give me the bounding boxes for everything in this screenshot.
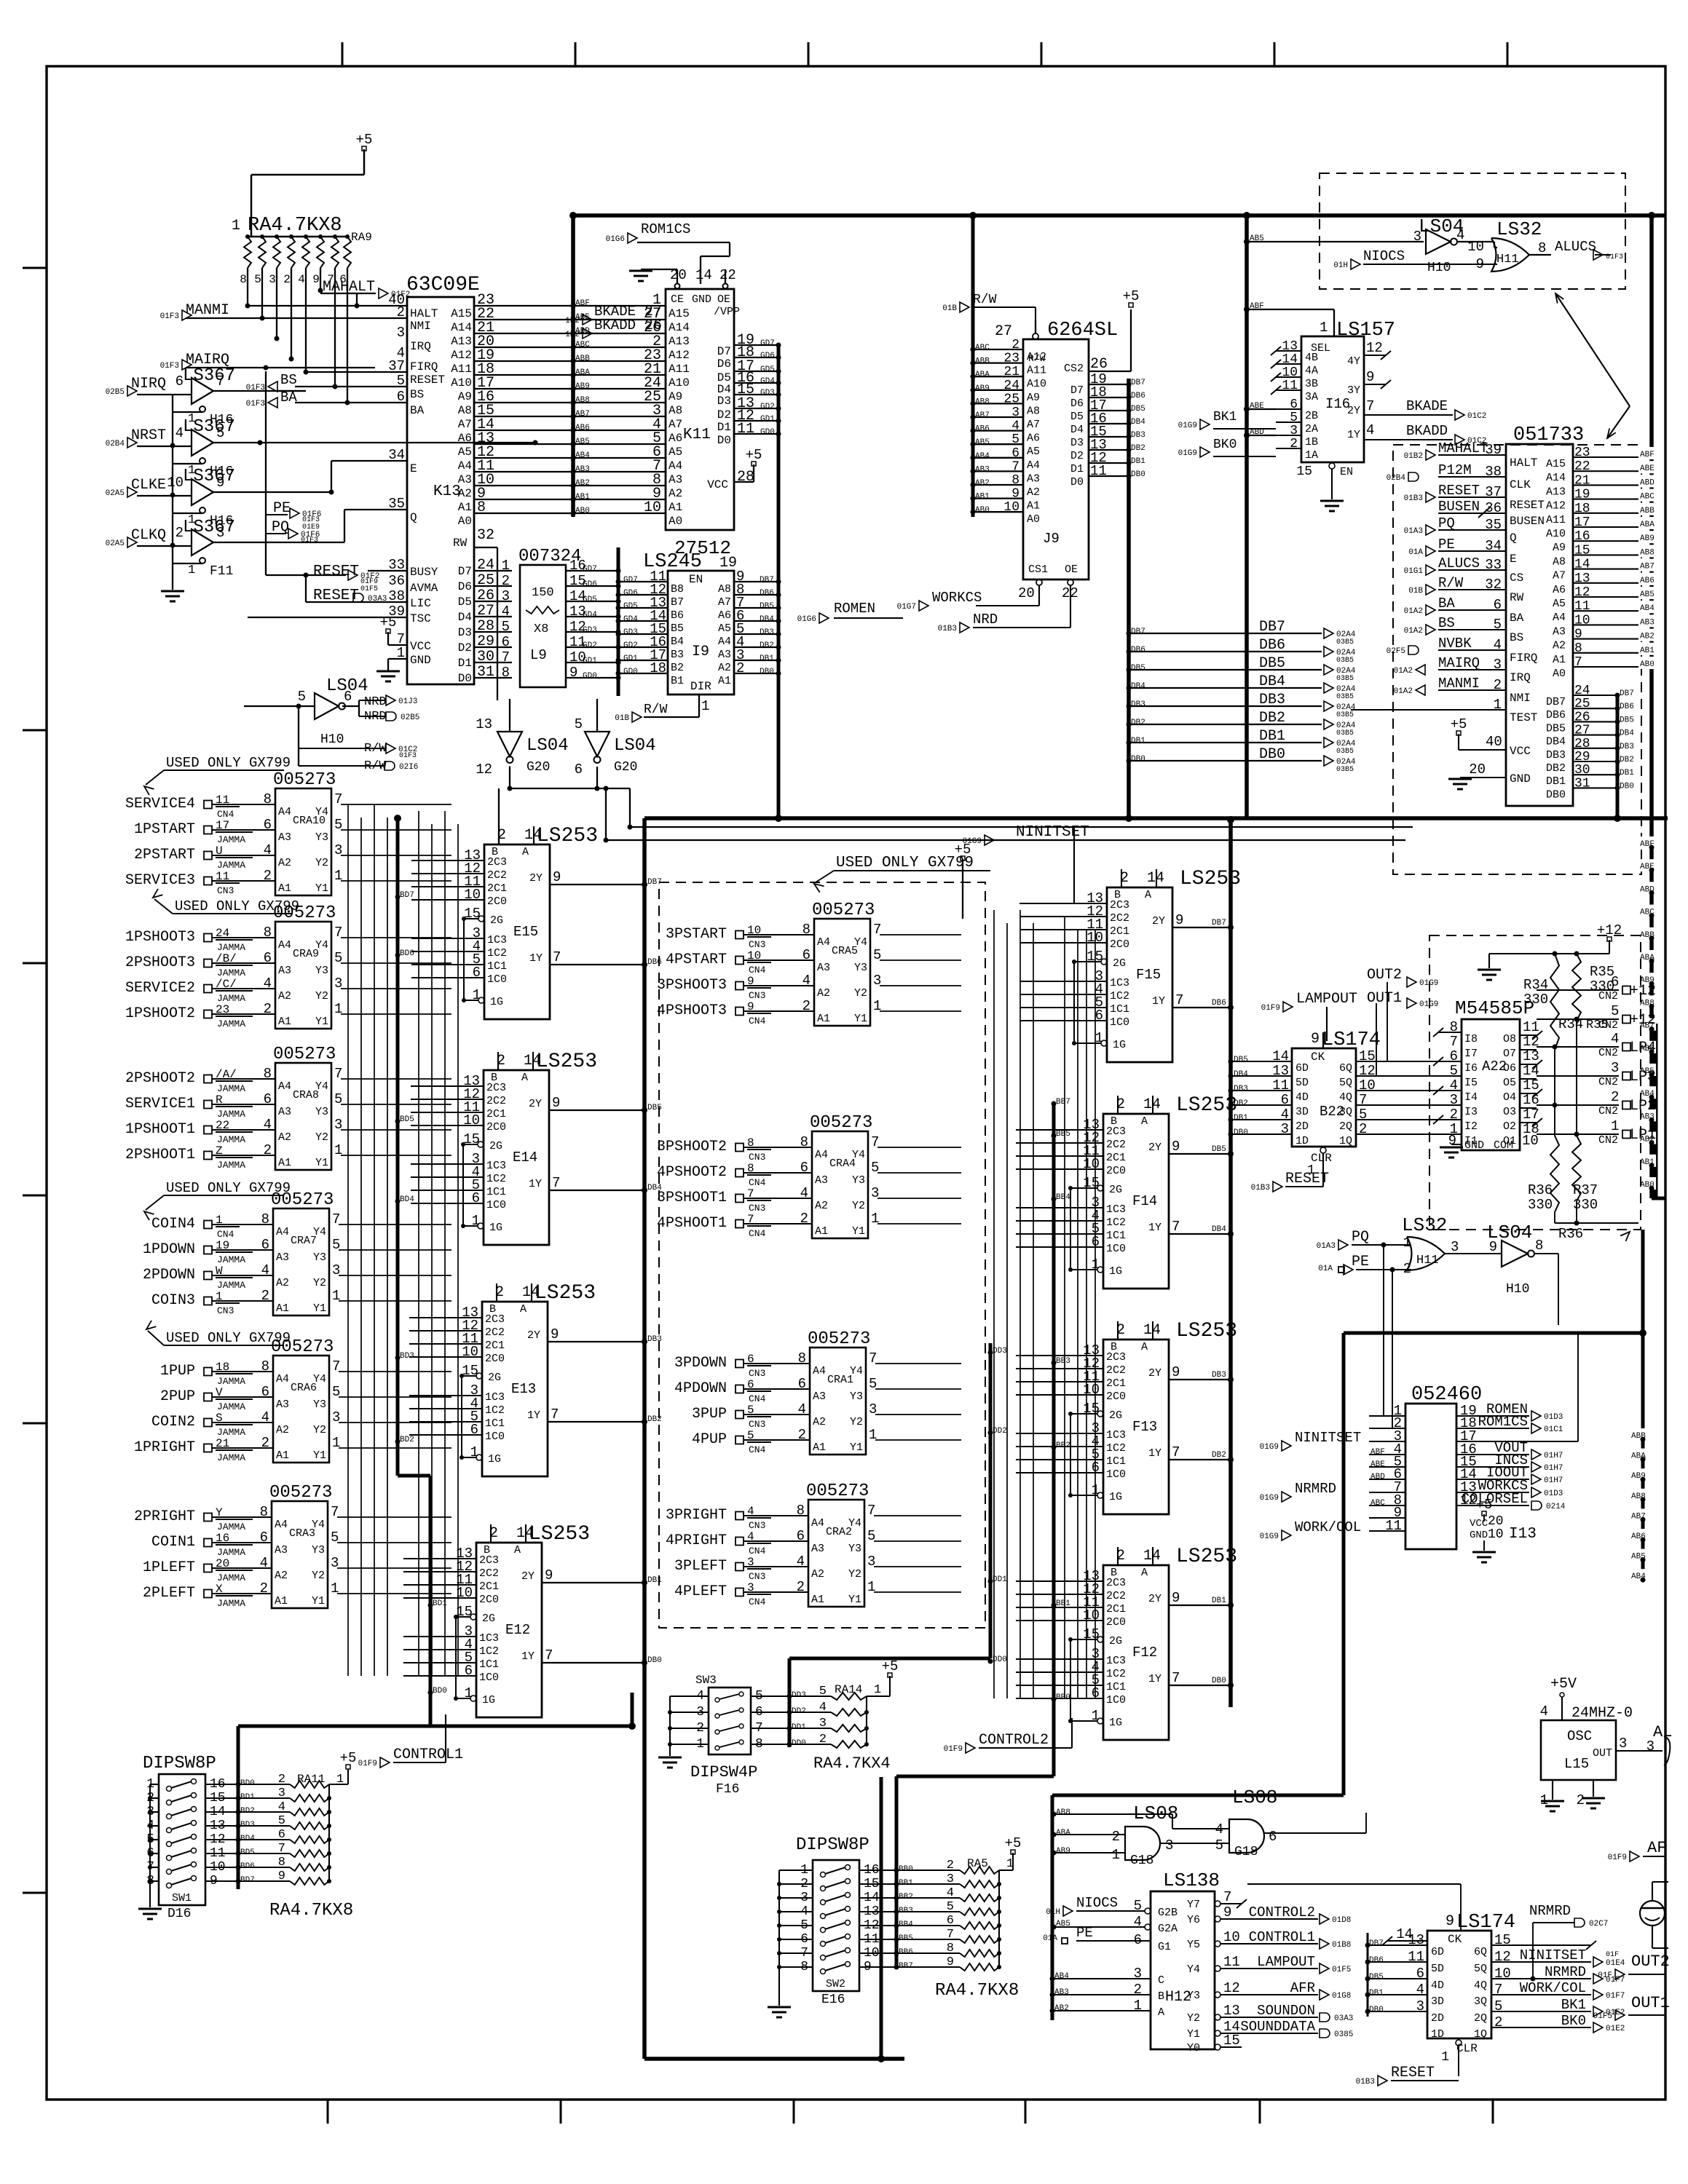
svg-text:D0: D0 <box>717 434 731 447</box>
svg-text:Y2: Y2 <box>312 1570 325 1582</box>
svg-text:9: 9 <box>553 869 561 885</box>
svg-text:ABF: ABF <box>1640 451 1655 459</box>
svg-text:A9: A9 <box>669 390 682 403</box>
svg-text:01H: 01H <box>1046 1908 1060 1917</box>
svg-text:CLR: CLR <box>1456 2042 1478 2055</box>
svg-text:A7: A7 <box>458 418 472 431</box>
svg-text:01F3: 01F3 <box>1606 253 1623 261</box>
svg-text:G18: G18 <box>1130 1853 1153 1868</box>
svg-text:AB5: AB5 <box>1056 1920 1070 1928</box>
svg-text:DB3: DB3 <box>1546 749 1566 761</box>
svg-text:9: 9 <box>551 1326 559 1342</box>
svg-text:ABE: ABE <box>1640 464 1655 473</box>
svg-text:DB4: DB4 <box>1546 736 1566 748</box>
svg-text:37: 37 <box>388 358 405 374</box>
svg-text:CN3: CN3 <box>749 939 765 950</box>
notes USED ONLY GX799 (left) <box>144 755 299 1346</box>
net LAMPOUT <box>1261 991 1357 1041</box>
svg-text:CLKE: CLKE <box>131 477 166 494</box>
svg-text:AB9: AB9 <box>975 384 990 393</box>
svg-text:JAMMA: JAMMA <box>217 1134 245 1145</box>
svg-text:Y6: Y6 <box>1187 1914 1200 1926</box>
svg-text:DB3: DB3 <box>1131 700 1145 709</box>
svg-text:D4: D4 <box>1070 424 1084 436</box>
svg-text:JAMMA: JAMMA <box>217 993 245 1004</box>
svg-text:Y3: Y3 <box>312 1544 325 1556</box>
multiplexer LS253 E13 <box>462 1282 644 1476</box>
svg-text:27: 27 <box>995 323 1012 340</box>
bus transceiver LS245 I9 <box>615 551 781 723</box>
svg-text:2C3: 2C3 <box>485 1313 505 1326</box>
svg-text:CN4: CN4 <box>749 1444 766 1455</box>
svg-text:AB7: AB7 <box>575 410 590 419</box>
svg-text:CN3: CN3 <box>217 885 234 896</box>
svg-text:DB3: DB3 <box>1234 1085 1248 1093</box>
svg-text:A8: A8 <box>458 404 472 417</box>
svg-text:BD4: BD4 <box>400 1195 414 1204</box>
nets BKADE / BKADD <box>565 304 662 339</box>
svg-text:5: 5 <box>1611 1003 1619 1019</box>
svg-text:Y3: Y3 <box>313 1251 326 1264</box>
svg-text:4Q: 4Q <box>1339 1091 1352 1104</box>
svg-text:Y1: Y1 <box>850 1441 863 1454</box>
svg-text:1C2: 1C2 <box>1106 1442 1126 1455</box>
svg-text:A2: A2 <box>815 1200 828 1212</box>
svg-text:BK0: BK0 <box>1561 2013 1586 2029</box>
svg-text:1G: 1G <box>1109 1717 1122 1729</box>
svg-text:4B: 4B <box>1305 352 1318 364</box>
svg-text:ABE: ABE <box>1370 1460 1385 1469</box>
svg-text:01F: 01F <box>1606 1951 1619 1959</box>
svg-text:JAMMA: JAMMA <box>217 834 245 845</box>
svg-text:2PSTART: 2PSTART <box>134 847 195 863</box>
svg-text:AB5: AB5 <box>1640 590 1655 599</box>
svg-text:AB8: AB8 <box>1640 548 1655 557</box>
svg-text:A13: A13 <box>1546 486 1566 498</box>
svg-text:01F9: 01F9 <box>1261 1004 1280 1013</box>
svg-text:ABB: ABB <box>1640 507 1655 515</box>
svg-text:4PSHOOT1: 4PSHOOT1 <box>657 1215 727 1232</box>
svg-text:1Q: 1Q <box>1474 2028 1487 2041</box>
svg-text:NRD: NRD <box>973 612 998 628</box>
svg-text:01E4: 01E4 <box>1606 1959 1625 1968</box>
svg-text:9: 9 <box>1175 912 1183 928</box>
svg-text:DB0: DB0 <box>1234 1128 1248 1137</box>
hex flip-flop LS174 L14 <box>1247 1884 1625 2086</box>
svg-text:ABB: ABB <box>575 355 590 363</box>
svg-text:01H7: 01H7 <box>1544 1452 1563 1460</box>
svg-text:CK: CK <box>1448 1933 1462 1946</box>
svg-text:9: 9 <box>312 273 320 286</box>
svg-text:5: 5 <box>1011 432 1019 447</box>
svg-text:1C0: 1C0 <box>486 1199 506 1211</box>
svg-text:6: 6 <box>502 634 510 650</box>
svg-text:13: 13 <box>476 716 492 732</box>
svg-text:JAMMA: JAMMA <box>217 860 245 871</box>
svg-text:2C1: 2C1 <box>1110 925 1129 938</box>
svg-text:D0: D0 <box>1070 476 1084 488</box>
svg-text:BA: BA <box>1510 612 1524 625</box>
svg-text:1G: 1G <box>1109 1265 1122 1278</box>
svg-text:OE: OE <box>717 293 730 306</box>
svg-text:Y1: Y1 <box>313 1449 326 1462</box>
svg-text:A0: A0 <box>669 515 682 528</box>
svg-text:01F5: 01F5 <box>360 585 378 593</box>
multiplexer LS253 F12 <box>1083 1546 1237 1740</box>
svg-text:B22: B22 <box>1320 1104 1344 1120</box>
svg-text:1PLEFT: 1PLEFT <box>143 1559 195 1576</box>
svg-text:01B: 01B <box>1408 587 1423 596</box>
svg-text:01A: 01A <box>1408 548 1423 557</box>
svg-text:BKADD: BKADD <box>594 317 636 333</box>
svg-text:01C2: 01C2 <box>1467 412 1486 421</box>
svg-text:NIOCS: NIOCS <box>1076 1895 1118 1911</box>
svg-text:CN4: CN4 <box>749 965 766 976</box>
nets OUT2 / OUT1 <box>1367 967 1438 1009</box>
svg-text:Q: Q <box>410 511 417 524</box>
svg-text:4: 4 <box>1540 1704 1548 1720</box>
svg-text:DB0: DB0 <box>1131 470 1145 479</box>
multiplexer LS253 F14 <box>1083 1094 1237 1289</box>
address bus AB (vertical, left) <box>571 215 591 517</box>
svg-text:A3: A3 <box>278 831 291 844</box>
svg-text:Y3: Y3 <box>848 1543 861 1555</box>
svg-text:G2A: G2A <box>1158 1923 1178 1935</box>
DD bus (DIP switch SW3 data) <box>789 1343 1007 1747</box>
svg-text:01G9: 01G9 <box>1260 1443 1279 1452</box>
svg-text:11: 11 <box>1223 1954 1240 1970</box>
svg-text:A1: A1 <box>278 1157 291 1169</box>
svg-text:2Q: 2Q <box>1339 1120 1352 1133</box>
svg-text:Y3: Y3 <box>852 1174 865 1187</box>
svg-text:JAMMA: JAMMA <box>217 1109 245 1120</box>
svg-text:9: 9 <box>1311 1031 1320 1048</box>
svg-text:CN3: CN3 <box>749 1419 765 1430</box>
svg-text:Y3: Y3 <box>854 962 867 974</box>
svg-text:AB8: AB8 <box>1056 1808 1070 1817</box>
svg-text:03B5: 03B5 <box>1336 638 1354 646</box>
svg-text:CN2: CN2 <box>1598 1047 1618 1059</box>
svg-text:A3: A3 <box>811 1543 824 1555</box>
svg-text:7: 7 <box>1172 1219 1180 1235</box>
svg-text:E: E <box>1510 553 1517 566</box>
svg-text:RESET: RESET <box>410 373 445 387</box>
svg-text:01A3: 01A3 <box>1404 527 1423 536</box>
svg-text:7: 7 <box>552 1175 560 1191</box>
svg-text:DB2: DB2 <box>760 641 774 650</box>
svg-text:D2: D2 <box>717 408 731 422</box>
svg-text:ABC: ABC <box>1370 1499 1385 1508</box>
svg-text:R36: R36 <box>1528 1182 1553 1198</box>
svg-text:36: 36 <box>388 573 405 589</box>
svg-text:3PSHOOT2: 3PSHOOT2 <box>657 1139 727 1155</box>
svg-text:D6: D6 <box>717 357 731 371</box>
svg-text:BK1: BK1 <box>1213 410 1237 424</box>
svg-text:AL: AL <box>1653 1723 1672 1741</box>
svg-text:9: 9 <box>1172 1139 1180 1155</box>
svg-text:AB6: AB6 <box>1640 577 1655 585</box>
svg-text:+5: +5 <box>1123 288 1140 304</box>
svg-text:1G: 1G <box>482 1694 495 1706</box>
svg-text:HALT: HALT <box>410 307 438 320</box>
svg-text:21: 21 <box>1003 365 1019 379</box>
svg-text:DB4: DB4 <box>1131 418 1145 427</box>
svg-text:3: 3 <box>269 273 276 286</box>
svg-text:DB6: DB6 <box>1131 646 1145 654</box>
svg-text:CN3: CN3 <box>749 1571 765 1582</box>
ROM 27512 K11 <box>629 256 781 559</box>
svg-text:01G9: 01G9 <box>1260 1494 1279 1503</box>
svg-text:BA: BA <box>1438 596 1455 612</box>
right edge AB bus (lower segment) <box>1630 1230 1647 1583</box>
svg-text:BD2: BD2 <box>400 1436 414 1444</box>
svg-text:20: 20 <box>1488 1514 1504 1529</box>
svg-text:7: 7 <box>1175 992 1183 1008</box>
svg-text:Y1: Y1 <box>315 1016 328 1028</box>
svg-text:9: 9 <box>1172 1590 1180 1606</box>
svg-text:A0: A0 <box>458 515 472 528</box>
svg-text:BB3: BB3 <box>1056 1357 1070 1366</box>
svg-text:A: A <box>1141 1115 1148 1128</box>
svg-text:A4: A4 <box>817 936 830 949</box>
svg-text:GD4: GD4 <box>623 615 638 624</box>
svg-text:4: 4 <box>298 273 305 286</box>
svg-text:5: 5 <box>216 425 224 441</box>
svg-text:Q: Q <box>1510 531 1517 545</box>
svg-text:F14: F14 <box>1132 1193 1157 1209</box>
svg-text:CLK: CLK <box>1510 478 1531 491</box>
svg-text:DB0: DB0 <box>760 668 774 676</box>
svg-text:7: 7 <box>551 1406 559 1423</box>
svg-text:15: 15 <box>1523 1077 1539 1093</box>
svg-text:NIOCS: NIOCS <box>1363 248 1405 264</box>
svg-text:4: 4 <box>1611 1031 1619 1047</box>
svg-text:DB3: DB3 <box>1212 1371 1226 1380</box>
svg-text:8: 8 <box>1535 1238 1543 1254</box>
svg-text:AB8: AB8 <box>975 397 990 406</box>
svg-text:DD1: DD1 <box>993 1575 1007 1584</box>
svg-text:RESET: RESET <box>1510 499 1545 512</box>
svg-text:MANMI: MANMI <box>1438 676 1480 692</box>
svg-text:K13: K13 <box>433 483 461 500</box>
svg-text:4PDOWN: 4PDOWN <box>674 1380 727 1397</box>
svg-text:AB6: AB6 <box>575 424 590 432</box>
svg-text:1C0: 1C0 <box>479 1671 499 1684</box>
svg-text:01B3: 01B3 <box>1404 494 1423 503</box>
svg-text:A13: A13 <box>451 335 472 348</box>
svg-text:5D: 5D <box>1431 1963 1444 1975</box>
svg-text:A4: A4 <box>278 939 291 951</box>
svg-text:RA11: RA11 <box>297 1773 325 1786</box>
svg-text:AB4: AB4 <box>975 452 990 461</box>
svg-text:A2: A2 <box>811 1568 824 1580</box>
svg-text:JAMMA: JAMMA <box>217 1522 245 1532</box>
svg-text:A1: A1 <box>817 1013 830 1025</box>
svg-text:6: 6 <box>575 761 583 778</box>
svg-text:01B2: 01B2 <box>1404 452 1423 461</box>
middle block bottom edge <box>644 2057 904 2061</box>
svg-text:A2: A2 <box>275 1570 288 1582</box>
svg-text:GD5: GD5 <box>623 602 638 611</box>
svg-text:A0: A0 <box>1553 668 1566 680</box>
svg-text:1F2: 1F2 <box>565 317 580 325</box>
svg-text:LIC: LIC <box>410 597 431 610</box>
svg-text:ROM1CS: ROM1CS <box>1478 1414 1528 1430</box>
svg-text:01G9: 01G9 <box>1178 422 1197 430</box>
svg-text:150: 150 <box>532 586 554 600</box>
svg-text:D3: D3 <box>717 395 731 408</box>
svg-text:11: 11 <box>737 421 754 438</box>
DB tags on right DB bus <box>1212 919 1234 1688</box>
speaker/lamp symbol (right edge) <box>1640 1882 1668 1948</box>
svg-text:01F3: 01F3 <box>399 752 417 760</box>
svg-text:03B5: 03B5 <box>1336 748 1354 756</box>
svg-text:1: 1 <box>1403 1235 1411 1251</box>
svg-text:1: 1 <box>1320 320 1328 336</box>
svg-text:DB4: DB4 <box>1620 729 1634 738</box>
svg-text:CONTROL2: CONTROL2 <box>979 1732 1049 1749</box>
svg-text:25: 25 <box>1003 392 1019 406</box>
svg-text:2Y: 2Y <box>529 1098 542 1110</box>
svg-text:Y2: Y2 <box>315 857 328 869</box>
svg-text:1PRIGHT: 1PRIGHT <box>134 1439 195 1456</box>
svg-text:Y4: Y4 <box>315 939 328 951</box>
svg-text:9: 9 <box>552 1095 560 1111</box>
resistor array 005273 CRA3 <box>134 1483 339 1609</box>
svg-text:GND: GND <box>1510 772 1531 786</box>
svg-text:2C1: 2C1 <box>479 1580 499 1593</box>
svg-text:DB3: DB3 <box>1259 692 1285 708</box>
svg-text:ABB: ABB <box>975 357 990 366</box>
svg-text:E: E <box>410 462 417 475</box>
svg-text:COIN1: COIN1 <box>151 1534 195 1551</box>
svg-text:1C3: 1C3 <box>486 1160 506 1172</box>
svg-text:A12: A12 <box>669 349 690 362</box>
svg-text:LAMPOUT: LAMPOUT <box>1296 991 1357 1008</box>
multiplexer LS157 I16 <box>1178 302 1487 511</box>
svg-text:9: 9 <box>1223 1904 1231 1920</box>
svg-text:CN2: CN2 <box>1598 1076 1618 1088</box>
svg-text:D7: D7 <box>1070 384 1084 397</box>
svg-text:A11: A11 <box>1027 365 1046 377</box>
svg-text:2C0: 2C0 <box>1110 938 1129 951</box>
svg-text:A10: A10 <box>1546 528 1566 540</box>
svg-text:4PUP: 4PUP <box>692 1431 727 1448</box>
ground rail for LS367 enables <box>161 394 184 601</box>
svg-text:2G: 2G <box>489 1140 502 1152</box>
svg-text:AB3: AB3 <box>1054 1988 1069 1997</box>
svg-text:1Y: 1Y <box>529 952 543 965</box>
svg-text:O8: O8 <box>1503 1033 1516 1045</box>
svg-text:3: 3 <box>1450 1092 1458 1108</box>
svg-text:A7: A7 <box>718 596 731 609</box>
svg-text:2C0: 2C0 <box>486 1121 506 1133</box>
svg-text:01A2: 01A2 <box>1394 687 1413 696</box>
svg-text:17: 17 <box>1523 1107 1539 1123</box>
svg-text:03A3: 03A3 <box>1334 2014 1353 2023</box>
svg-text:01A2: 01A2 <box>1394 667 1413 676</box>
svg-text:3: 3 <box>1413 229 1421 245</box>
svg-text:1G: 1G <box>489 1222 502 1234</box>
svg-text:2C3: 2C3 <box>1110 899 1129 911</box>
svg-text:6: 6 <box>1611 974 1619 990</box>
svg-text:F13: F13 <box>1132 1419 1157 1435</box>
svg-text:E15: E15 <box>513 924 538 940</box>
svg-text:+5: +5 <box>356 132 373 148</box>
svg-text:A7: A7 <box>669 418 682 431</box>
svg-text:2Y: 2Y <box>521 1570 535 1583</box>
svg-text:DIR: DIR <box>690 680 711 693</box>
svg-text:2PSHOOT3: 2PSHOOT3 <box>125 954 195 971</box>
svg-text:1PUP: 1PUP <box>160 1363 195 1380</box>
svg-text:AB3: AB3 <box>1640 618 1655 627</box>
svg-text:A: A <box>520 1303 526 1315</box>
svg-text:4PRIGHT: 4PRIGHT <box>666 1532 727 1549</box>
svg-text:CONTROL1: CONTROL1 <box>1249 1929 1315 1945</box>
svg-text:L9: L9 <box>530 647 547 663</box>
svg-text:A5: A5 <box>669 446 682 459</box>
svg-text:03B5: 03B5 <box>1336 729 1354 737</box>
svg-text:1Y: 1Y <box>1148 1222 1162 1234</box>
svg-text:01B: 01B <box>615 714 629 723</box>
svg-text:RA9: RA9 <box>351 231 372 244</box>
svg-text:2C3: 2C3 <box>1106 1125 1126 1138</box>
svg-text:COLORSEL: COLORSEL <box>1462 1491 1528 1507</box>
svg-text:CS: CS <box>1510 571 1523 585</box>
svg-text:BS: BS <box>1438 615 1455 631</box>
svg-text:A1: A1 <box>718 675 731 687</box>
svg-text:1C1: 1C1 <box>1110 1003 1129 1016</box>
svg-text:NMI: NMI <box>1510 692 1531 705</box>
svg-text:DB1: DB1 <box>1212 1597 1226 1605</box>
svg-text:3PSHOOT1: 3PSHOOT1 <box>657 1190 727 1206</box>
svg-text:1C0: 1C0 <box>487 973 507 986</box>
svg-text:DB5: DB5 <box>1259 655 1285 672</box>
svg-text:+12: +12 <box>1630 1012 1656 1029</box>
svg-text:A3: A3 <box>1027 472 1040 485</box>
svg-text:H10: H10 <box>1427 261 1451 275</box>
svg-text:4Y: 4Y <box>1347 355 1360 368</box>
svg-text:5: 5 <box>1450 1063 1458 1079</box>
svg-text:DB5: DB5 <box>760 602 774 611</box>
svg-text:2D: 2D <box>1295 1120 1309 1133</box>
resistor array RA9 RA4.7KX8 <box>232 215 372 286</box>
svg-text:JAMMA: JAMMA <box>217 1160 245 1171</box>
svg-text:A4: A4 <box>278 806 291 818</box>
svg-text:A10: A10 <box>451 376 472 389</box>
svg-text:RW: RW <box>1510 591 1524 604</box>
DB bus x=1690 (middle box right edge) <box>1227 816 1234 1707</box>
svg-text:Y3: Y3 <box>315 965 328 977</box>
svg-text:2: 2 <box>1577 1792 1585 1808</box>
svg-text:5D: 5D <box>1295 1077 1309 1089</box>
svg-text:3PRIGHT: 3PRIGHT <box>666 1507 727 1524</box>
svg-text:A6: A6 <box>1027 432 1040 445</box>
svg-text:DB7: DB7 <box>1620 689 1634 698</box>
svg-text:LS253: LS253 <box>1180 868 1241 890</box>
svg-text:DB5: DB5 <box>1369 1973 1384 1982</box>
svg-text:TEST: TEST <box>1510 711 1537 724</box>
svg-text:Y2: Y2 <box>315 1131 328 1144</box>
svg-text:A: A <box>1158 2006 1164 2019</box>
svg-text:H10: H10 <box>1506 1282 1529 1297</box>
decoder LS138 H12 <box>1043 1870 1353 2054</box>
svg-text:DB2: DB2 <box>1620 756 1634 764</box>
svg-text:01F: 01F <box>1598 1971 1612 1980</box>
svg-text:GND: GND <box>692 293 711 306</box>
svg-text:Y3: Y3 <box>313 1398 326 1411</box>
svg-text:A8: A8 <box>669 404 682 417</box>
